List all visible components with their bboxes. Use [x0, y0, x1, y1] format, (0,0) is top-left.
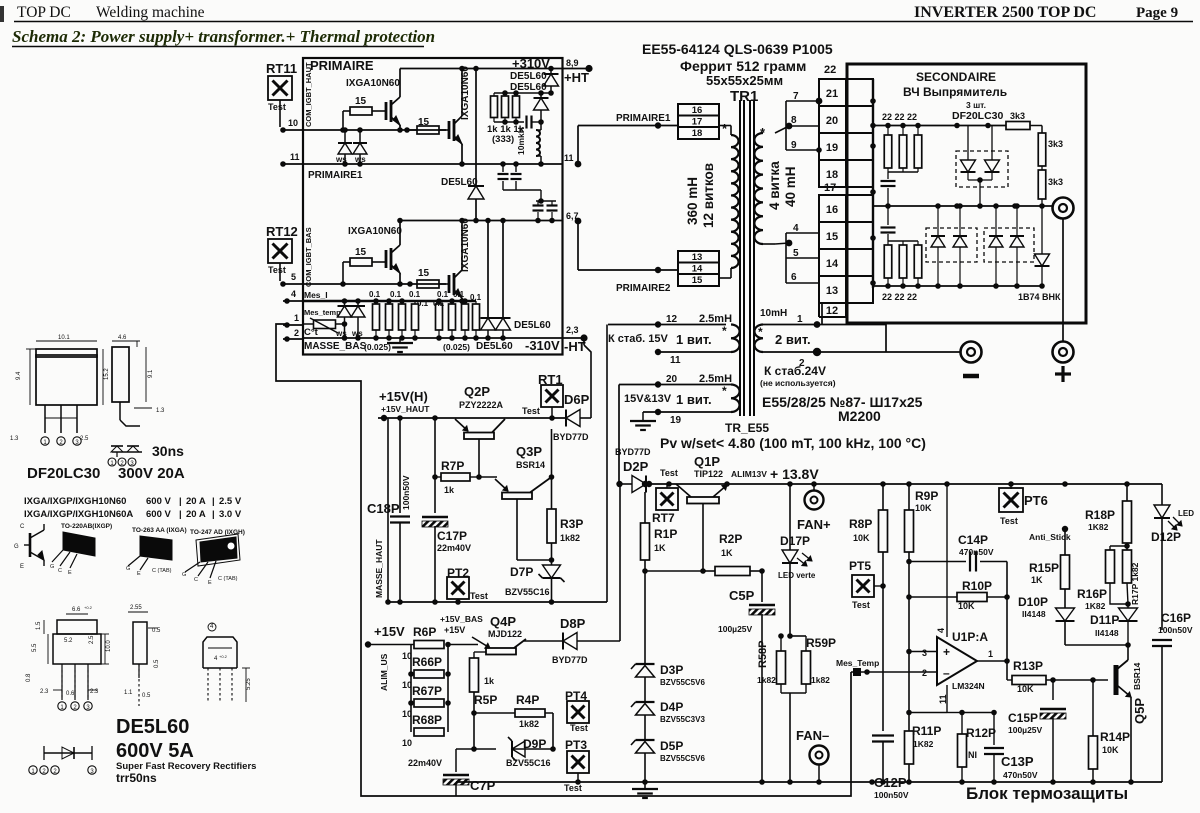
line 5 COM_IGBT_BAS	[303, 283, 446, 285]
svg-text:18: 18	[826, 169, 838, 181]
svg-text:0.5: 0.5	[152, 628, 161, 634]
test point RT7	[666, 484, 668, 488]
svg-text:1K82: 1K82	[1085, 601, 1106, 611]
svg-text:|: |	[212, 509, 215, 520]
svg-text:10.0: 10.0	[106, 640, 112, 652]
cap C16P	[1161, 630, 1163, 637]
wire node 571	[645, 570, 706, 572]
svg-text:*: *	[722, 324, 727, 338]
diodes upper pair	[967, 126, 969, 161]
snubber rail y122	[494, 121, 524, 123]
resistor R18P	[1126, 484, 1128, 501]
svg-text:10: 10	[402, 651, 412, 661]
zener D3P	[636, 663, 655, 665]
IGBT T2	[448, 121, 451, 139]
svg-text:R9P: R9P	[915, 489, 938, 503]
wire to minus terminal y325	[822, 324, 886, 326]
svg-text:10K: 10K	[853, 533, 870, 543]
svg-text:4 витка: 4 витка	[767, 161, 782, 210]
svg-text:13: 13	[826, 285, 838, 297]
terminal FAN+	[813, 484, 815, 490]
svg-text:MASSE_HAUT: MASSE_HAUT	[374, 539, 384, 598]
TR1 core lines	[739, 100, 741, 416]
test point PT2	[447, 577, 469, 599]
svg-text:22 22 22: 22 22 22	[882, 292, 917, 302]
zener D7P	[551, 543, 553, 565]
svg-text:Test: Test	[660, 468, 678, 478]
svg-text:FAN+: FAN+	[797, 517, 831, 532]
svg-text:3k3: 3k3	[1048, 139, 1063, 149]
resistor R11P	[908, 652, 910, 732]
svg-text:COM_IGBT_HAUT: COM_IGBT_HAUT	[304, 62, 313, 127]
svg-text:1.3: 1.3	[10, 436, 19, 442]
svg-text:2.5mH: 2.5mH	[699, 373, 732, 385]
svg-text:4: 4	[936, 628, 946, 633]
svg-text:R13P: R13P	[1013, 659, 1043, 673]
phase vertical lower x488 with DE5L60	[487, 221, 489, 319]
wire anti stick node	[1062, 526, 1068, 532]
wire -HT to D6P	[583, 338, 585, 345]
svg-text:5.25: 5.25	[246, 678, 252, 690]
DE5L60 drawing front view	[66, 613, 88, 615]
svg-text:LM324N: LM324N	[952, 681, 985, 691]
zener D5P	[636, 739, 655, 741]
rail +15V_HAUT	[378, 417, 566, 419]
svg-text:DE5L60: DE5L60	[514, 320, 551, 331]
pin box 16 17 18	[678, 104, 719, 139]
svg-text:14: 14	[692, 264, 703, 275]
svg-text:RT7: RT7	[652, 511, 675, 525]
svg-text:BZV55C5V6: BZV55C5V6	[660, 754, 705, 763]
dashed box lower diode pair 1	[926, 228, 977, 262]
resistor R1P	[641, 523, 650, 560]
svg-text:C15P: C15P	[1008, 711, 1038, 725]
svg-text:II4148: II4148	[1095, 628, 1119, 638]
svg-text:D3P: D3P	[660, 663, 683, 677]
vertical x551 rail	[551, 429, 553, 509]
svg-text:R5P: R5P	[474, 693, 497, 707]
ground symbol bottom	[632, 788, 658, 790]
diode D10P	[1056, 608, 1075, 621]
IGBT transistor symbol	[29, 533, 32, 557]
node -HT dot	[580, 334, 587, 341]
svg-text:2.3: 2.3	[40, 689, 49, 695]
svg-text:10K: 10K	[958, 601, 975, 611]
snubber diode 2	[540, 93, 542, 97]
svg-text:IXGA/IXGP/IXGH10N60: IXGA/IXGP/IXGH10N60	[24, 496, 126, 507]
svg-text:0.5: 0.5	[142, 693, 151, 699]
svg-text:(333): (333)	[492, 134, 514, 145]
resistor R16P	[1110, 545, 1127, 547]
svg-text:Mes_I: Mes_I	[304, 290, 328, 300]
svg-text:100n50V: 100n50V	[874, 790, 909, 800]
svg-text:R68P: R68P	[412, 713, 442, 727]
svg-text:C14P: C14P	[958, 533, 988, 547]
svg-text:1: 1	[988, 649, 993, 659]
svg-text:1K82: 1K82	[1088, 522, 1109, 532]
svg-text:U1P:A: U1P:A	[952, 630, 988, 644]
snubber 1k resistor bank	[491, 96, 498, 118]
svg-text:Q4P: Q4P	[490, 614, 516, 629]
svg-text:Феррит 512 грамм: Феррит 512 грамм	[680, 58, 806, 74]
phase vertical lower x503 with DE5L60	[502, 221, 504, 319]
transistor Q2P	[464, 433, 494, 440]
svg-text:1k: 1k	[444, 485, 455, 495]
label plus	[1055, 372, 1071, 375]
svg-text:D5P: D5P	[660, 739, 683, 753]
svg-text:E: E	[20, 564, 24, 570]
svg-text:21: 21	[826, 88, 838, 100]
svg-text:C13P: C13P	[1001, 754, 1034, 769]
svg-text:15V&13V: 15V&13V	[624, 393, 672, 405]
svg-text:1k82: 1k82	[519, 719, 539, 729]
svg-text:Q3P: Q3P	[516, 444, 542, 459]
op-amp U1P:A	[937, 637, 977, 685]
wire Q5P to bottom	[1128, 779, 1134, 785]
svg-text:|: |	[179, 496, 182, 507]
pin box 13 14 15	[678, 251, 719, 286]
svg-text:C5P: C5P	[729, 588, 755, 603]
svg-text:1K: 1K	[721, 548, 733, 558]
Mes_Temp trace	[276, 324, 851, 796]
svg-text:*: *	[722, 384, 727, 398]
wire left enclosure haut	[387, 418, 389, 602]
svg-text:Test: Test	[268, 265, 286, 275]
svg-text:18: 18	[692, 128, 703, 139]
svg-text:BZV55C16: BZV55C16	[506, 758, 551, 768]
svg-text:TOP DC: TOP DC	[17, 4, 71, 21]
svg-text:22: 22	[824, 64, 836, 76]
cap C sec top	[887, 172, 889, 179]
svg-text:9.1: 9.1	[148, 369, 154, 378]
svg-text:R8P: R8P	[849, 517, 872, 531]
svg-text:R14P: R14P	[1100, 730, 1130, 744]
cap C17P polarized	[422, 516, 448, 519]
terminal circle inner	[1053, 198, 1074, 219]
svg-text:1.3: 1.3	[156, 408, 165, 414]
svg-text:Pv w/set< 4.80 (100 mT, 100 kH: Pv w/set< 4.80 (100 mT, 100 kHz, 100 °C)	[660, 435, 926, 451]
svg-text:100n50V: 100n50V	[1158, 625, 1193, 635]
svg-text:1.5: 1.5	[36, 621, 42, 630]
svg-text:IXGA/IXGP/IXGH10N60A: IXGA/IXGP/IXGH10N60A	[24, 509, 133, 520]
svg-text:R10P: R10P	[962, 579, 992, 593]
svg-text:IXGA10N60: IXGA10N60	[348, 226, 402, 237]
svg-text:+HT: +HT	[564, 70, 589, 85]
svg-text:15.2: 15.2	[104, 368, 110, 380]
svg-text:D10P: D10P	[1018, 595, 1048, 609]
line 2 MASSE_BAS rail	[303, 337, 563, 339]
zener D9P	[456, 748, 496, 750]
svg-text:12 витков: 12 витков	[701, 163, 716, 228]
svg-text:6.6: 6.6	[72, 607, 81, 613]
resistor R4P	[474, 712, 515, 714]
wire base Q2P-Q3P	[479, 476, 497, 478]
svg-text:+15V_BAS: +15V_BAS	[440, 614, 483, 624]
diode D6P	[566, 410, 580, 427]
svg-text:PT5: PT5	[849, 559, 871, 573]
svg-text:NI: NI	[968, 750, 977, 760]
svg-text:TO-263 AA (IXGA): TO-263 AA (IXGA)	[132, 527, 187, 534]
svg-text:600 V: 600 V	[146, 509, 171, 520]
svg-text:0.1: 0.1	[390, 290, 402, 299]
opamp output wire	[977, 660, 1007, 662]
svg-text:14: 14	[826, 258, 839, 270]
diode DE5L60 phase	[468, 186, 484, 199]
secondaire inner bus	[872, 79, 874, 288]
resistor R9P	[908, 484, 910, 510]
svg-text:1k82: 1k82	[757, 675, 776, 685]
svg-text:470n50V: 470n50V	[1003, 770, 1038, 780]
svg-text:16: 16	[692, 105, 703, 116]
header underline	[14, 21, 1193, 23]
svg-text:EE55-64124 QLS-0639 P1005: EE55-64124 QLS-0639 P1005	[642, 41, 833, 57]
DE5L60 drawing side view	[128, 611, 148, 613]
diode DE5L60 top right	[550, 69, 552, 74]
svg-text:0.1: 0.1	[369, 290, 381, 299]
diode D2P	[632, 476, 646, 493]
svg-text:8: 8	[791, 115, 797, 126]
svg-text:12: 12	[666, 314, 678, 325]
svg-text:17: 17	[692, 117, 703, 128]
svg-text:R4P: R4P	[516, 693, 539, 707]
svg-text:C12P: C12P	[874, 775, 907, 790]
snubber cap	[525, 116, 527, 129]
svg-text:2.55: 2.55	[130, 605, 142, 611]
svg-text:C: C	[194, 577, 198, 583]
cap C7P polarized	[455, 749, 457, 772]
svg-text:100n50V: 100n50V	[401, 475, 411, 510]
secondary pin dots	[786, 123, 793, 130]
diode D11P	[1119, 608, 1138, 621]
wire pin 11 lower	[658, 351, 731, 353]
wire pin1 up to box 12	[817, 324, 822, 326]
svg-text:2,3: 2,3	[566, 325, 579, 335]
svg-text:3k3: 3k3	[1010, 111, 1025, 121]
svg-text:2.3: 2.3	[90, 689, 99, 695]
resistor R68P	[414, 728, 444, 736]
svg-text:0.1: 0.1	[437, 290, 449, 299]
parallel bottom wire	[781, 692, 806, 694]
svg-text:R6P: R6P	[413, 625, 436, 639]
svg-text:10: 10	[288, 118, 298, 128]
wire +15V to ladder	[365, 644, 414, 646]
svg-text:DE5L60: DE5L60	[116, 716, 189, 738]
svg-text:0.1: 0.1	[409, 290, 421, 299]
svg-text:20: 20	[826, 115, 838, 127]
svg-text:Test: Test	[522, 406, 540, 416]
svg-text:5.2: 5.2	[64, 638, 73, 644]
svg-text:R1P: R1P	[654, 527, 677, 541]
svg-text:M2200: M2200	[838, 408, 881, 424]
IGBT T4	[448, 275, 451, 293]
svg-text:DF20LC30: DF20LC30	[952, 110, 1004, 122]
wire D10P to D11P node	[1065, 644, 1128, 646]
svg-text:PT2: PT2	[447, 566, 469, 580]
svg-text:SECONDAIRE: SECONDAIRE	[916, 70, 996, 84]
diode 1B74 BHK	[1041, 206, 1043, 254]
svg-text:1.1: 1.1	[124, 690, 133, 696]
svg-text:6: 6	[791, 272, 797, 283]
terminal minus	[961, 342, 982, 363]
svg-text:5: 5	[291, 272, 296, 282]
snubber rail y93	[494, 92, 551, 94]
svg-text:TR_E55: TR_E55	[725, 421, 769, 435]
svg-text:13: 13	[692, 252, 703, 263]
svg-text:100µ25V: 100µ25V	[718, 624, 753, 634]
svg-text:COM_IGBT_BAS: COM_IGBT_BAS	[304, 227, 313, 287]
line 10 COM_IGBT_HAUT	[303, 129, 446, 131]
svg-text:BYD77D: BYD77D	[615, 447, 651, 457]
SECONDAIRE box outline	[847, 64, 1086, 323]
wire ladder to Q4P	[448, 644, 478, 646]
svg-text:11: 11	[670, 355, 681, 366]
test point PT5	[852, 575, 874, 597]
svg-text:3: 3	[922, 648, 927, 658]
resistor R66P	[414, 670, 444, 678]
svg-text:Welding machine: Welding machine	[96, 4, 205, 21]
svg-text:+ 13.8V: + 13.8V	[770, 466, 819, 482]
svg-text:DF20LC30: DF20LC30	[27, 465, 100, 482]
svg-text:PRIMAIRE: PRIMAIRE	[310, 58, 374, 73]
scan mark left edge	[0, 6, 4, 22]
svg-text:30ns: 30ns	[152, 443, 184, 459]
cap C14P	[909, 561, 966, 563]
resistor R6P	[414, 641, 444, 649]
svg-text:BSR14: BSR14	[516, 460, 545, 470]
primary winding 12 turns	[719, 125, 731, 127]
svg-text:10K: 10K	[1017, 684, 1034, 694]
wire Q5P emitter down	[1130, 707, 1132, 782]
diode D8P	[563, 633, 577, 650]
0.1 resistor bank 1	[375, 301, 377, 304]
svg-text:|: |	[179, 509, 182, 520]
wire Mes_Temp to opamp	[851, 671, 936, 673]
pin 11 node right	[575, 161, 582, 168]
svg-text:BZV55C3V3: BZV55C3V3	[660, 715, 705, 724]
secondaire bottom rail	[873, 285, 1043, 287]
svg-text:D12P: D12P	[1151, 530, 1181, 544]
resistor R8P	[882, 484, 884, 510]
resistor R17P	[1123, 550, 1132, 583]
svg-text:10K: 10K	[1102, 745, 1119, 755]
svg-text:600 V: 600 V	[146, 496, 171, 507]
DF20LC30 package side view	[112, 347, 129, 402]
svg-text:20 A: 20 A	[186, 496, 206, 507]
svg-text:2: 2	[294, 328, 299, 338]
ground MASSE_BAS	[387, 342, 413, 344]
wire ladder bottom to C7P	[410, 732, 412, 741]
cap C12P	[872, 734, 894, 736]
svg-text:R11P: R11P	[912, 724, 941, 738]
diodes lower pair 2	[995, 206, 997, 236]
svg-text:C (TAB): C (TAB)	[152, 568, 172, 574]
svg-text:1K: 1K	[654, 543, 666, 553]
svg-text:C: C	[58, 568, 62, 574]
svg-text:-HT: -HT	[564, 339, 586, 354]
svg-text:2 вит.: 2 вит.	[775, 332, 811, 347]
svg-text:1K: 1K	[1031, 575, 1043, 585]
svg-text:22m40V: 22m40V	[408, 758, 442, 768]
test point RT1	[541, 385, 563, 407]
svg-text:4: 4	[291, 289, 296, 299]
svg-text:1K82: 1K82	[913, 739, 934, 749]
svg-text:R67P: R67P	[412, 684, 442, 698]
svg-text:20: 20	[666, 374, 678, 385]
svg-text:|: |	[212, 496, 215, 507]
svg-text:Schema 2: Power supply+ transf: Schema 2: Power supply+ transformer.+ Th…	[12, 27, 435, 46]
resistor R7P	[441, 473, 470, 481]
svg-text:Mes_temp: Mes_temp	[304, 308, 341, 317]
svg-text:C17P: C17P	[437, 529, 467, 543]
svg-text:15: 15	[355, 247, 367, 258]
svg-text:–: –	[943, 666, 950, 680]
resistor ladder bus left	[410, 645, 412, 733]
svg-text:+15V(H): +15V(H)	[379, 389, 428, 404]
svg-text:R7P: R7P	[441, 459, 464, 473]
wire opamp plus input	[909, 651, 937, 653]
svg-text:DE5L60: DE5L60	[510, 71, 547, 82]
test point PT4	[567, 701, 589, 723]
svg-text:10mkH: 10mkH	[516, 127, 526, 155]
svg-text:Page 9: Page 9	[1136, 5, 1178, 21]
dashed box lower diode pair 2	[984, 228, 1034, 262]
svg-text:RT11: RT11	[266, 61, 297, 76]
resistor R3P	[547, 509, 556, 543]
secondary winding 4 turns	[775, 126, 789, 133]
phase node vertical x476	[475, 69, 477, 187]
ws diode pair upper	[344, 130, 346, 143]
cap C18P	[399, 418, 401, 513]
svg-text:5.5: 5.5	[32, 643, 38, 652]
svg-text:BSR14: BSR14	[1132, 662, 1142, 690]
svg-text:TO-220AB(IXGP): TO-220AB(IXGP)	[61, 523, 112, 530]
wire RT11 to pin10	[279, 100, 281, 127]
svg-text:1 вит.: 1 вит.	[676, 332, 712, 347]
parallel R58P R59P top wire	[790, 635, 806, 637]
svg-text:9.4: 9.4	[16, 371, 22, 380]
svg-text:D6P: D6P	[564, 392, 590, 407]
resistor R58P	[777, 651, 786, 684]
wire opamp minus from Mes_Temp	[864, 669, 870, 675]
resistor 3k3 vertical 2	[1038, 170, 1046, 199]
ws diode pair lower	[344, 301, 346, 306]
svg-text:MASSE_BAS: MASSE_BAS	[304, 341, 367, 352]
svg-text:0.1: 0.1	[470, 293, 482, 302]
terminal plus	[1053, 342, 1074, 363]
svg-text:Test: Test	[852, 600, 870, 610]
diodes lower pair 1	[937, 206, 939, 236]
wire bottom right corner	[1161, 660, 1163, 782]
wire pin 19 and ground	[643, 411, 731, 413]
wire R5P top	[473, 652, 475, 658]
masse haut rail	[388, 601, 607, 603]
svg-text:II4148: II4148	[1022, 609, 1046, 619]
svg-text:FAN–: FAN–	[796, 728, 829, 743]
resistor 3k3 vertical 1	[1038, 133, 1046, 166]
LED D17P	[782, 550, 798, 563]
svg-text:8,9: 8,9	[566, 58, 579, 68]
ground TR winding	[630, 420, 656, 422]
svg-text:R16P: R16P	[1077, 587, 1107, 601]
svg-text:1k82: 1k82	[811, 675, 830, 685]
svg-text:G: G	[50, 564, 54, 570]
svg-text:40 mH: 40 mH	[783, 166, 798, 207]
test point RT11	[268, 76, 292, 100]
wire D17P column	[789, 484, 791, 550]
wire plus terminal	[1062, 219, 1064, 342]
svg-text:100µ25V: 100µ25V	[1008, 725, 1043, 735]
svg-text:G: G	[182, 572, 186, 578]
